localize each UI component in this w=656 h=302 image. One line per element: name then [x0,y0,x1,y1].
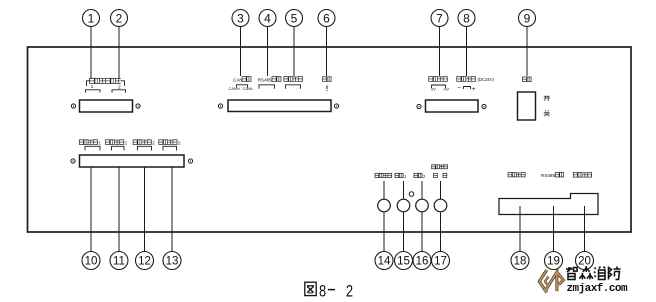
callout 10 [82,252,100,270]
svg-text:+: + [472,86,476,93]
caption CJK tu (figure) glyph [305,282,316,295]
pin bracket power input [464,87,471,90]
watermark text miao (CJK) [579,266,593,279]
svg-text:0V: 0V [431,87,436,92]
svg-text:13: 13 [166,256,179,268]
callout 12 [136,252,154,270]
callout 17 [432,252,450,270]
connector J2 body [228,100,331,112]
callout 6 [318,10,335,27]
pin bracket J1-2 [112,90,126,93]
svg-text:RS485: RS485 [541,173,555,178]
jack ext line 1 [397,199,410,212]
connector J1 body [80,100,133,112]
watermark text fang (CJK) [609,267,621,280]
label remote output (CJK) [429,77,433,82]
callout 8 [458,10,475,27]
label request port (CJK) [508,173,512,177]
wire plate to bottom callout [584,206,586,252]
label cascade output (CJK) [573,173,577,178]
wire J4 to bottom callout [144,167,146,252]
pin bracket J1-1 [86,90,101,93]
callout 13 [163,252,181,270]
callout 16 [413,252,431,270]
label power input (CJK) + (DC24V) [457,77,461,82]
svg-text:8: 8 [319,282,326,301]
callout 4 [259,10,276,27]
label chassis (CJK) [323,77,327,82]
label ext line 2 (CJK) [414,173,418,177]
label J1 fire-alarm-signal-input (CJK) [90,78,95,83]
wire jack to bottom callout [440,212,442,252]
svg-text:1: 1 [88,11,95,25]
svg-text:9: 9 [524,11,531,25]
chassis pin tick [326,85,328,89]
label bracket J1 (fire signal input) [87,81,91,86]
label electronic podium (CJK, 2 lines) [432,165,436,169]
wire callout 2 leader [118,27,120,80]
wire plate to bottom callout [519,206,521,252]
label fixed-voltage input 2 (CJK) [133,140,137,145]
screw right of J2 [334,104,338,108]
svg-text:5: 5 [291,11,298,25]
wire J4 to bottom callout [90,167,92,252]
indicator small circle [409,192,414,197]
wire label stub to jack [383,181,385,199]
wire jack to bottom callout [421,212,423,252]
svg-text:19: 19 [547,256,560,268]
pin bracket J4-2 [112,146,125,150]
svg-text:6: 6 [323,11,330,25]
wire callout 5 leader [293,27,295,77]
label fixed-voltage output 1 (CJK) [106,140,110,145]
screw right of J1 [136,104,140,108]
svg-text:CANL: CANL [243,86,254,91]
svg-text:4: 4 [264,11,271,25]
label control port (CJK) [284,77,288,82]
wire callout 6 leader [326,27,328,77]
jack audio output [378,199,391,212]
wire plate to bottom callout [553,206,555,252]
label fixed-voltage input 1 (CJK) [79,140,83,145]
svg-text:7: 7 [436,11,443,25]
wire callout 3 leader [240,27,242,77]
screw left of J4 [71,159,75,163]
label power (CJK) [523,77,527,82]
wire callout 1 leader [90,27,92,80]
pin bracket J4-4 [163,146,177,150]
callout 18 [511,252,529,270]
wire callout 8 leader [466,27,468,77]
pin bracket CAN [237,85,248,88]
wire label stub to jack [403,181,405,199]
callout 9 [519,10,536,27]
label ON (CJK kai) [544,96,550,101]
label ext line 1 (CJK) [395,173,399,177]
jack podium output [434,199,447,212]
svg-text:18: 18 [514,256,527,268]
watermark text zhi (CJK) [566,267,577,280]
wire jack to bottom callout [383,212,385,252]
jack ext line 2 [416,199,429,212]
svg-text:17: 17 [434,256,447,268]
power switch S1 body [518,92,536,120]
screw right of J3 [482,104,486,108]
pin bracket RS485 [259,85,275,89]
wire callout 7 leader [439,27,441,77]
callout 5 [286,10,303,27]
svg-text:8: 8 [463,11,470,25]
callout 19 [545,252,563,270]
callout 11 [110,252,128,270]
svg-text:14: 14 [378,256,391,268]
connector J3 body [426,100,479,112]
svg-text:1: 1 [91,84,94,90]
screw left of J3 [417,104,421,108]
wire callout 9 leader [526,27,528,77]
callout 1 [83,10,100,27]
connector plate body [499,194,598,215]
screw right of J4 [188,159,192,163]
connector J4 body [80,155,185,167]
label audio output (CJK) [375,173,379,177]
screw left of J2 [218,104,222,108]
callout 7 [431,10,448,27]
svg-text:2: 2 [346,282,353,301]
label fixed-voltage output 2 (CJK) [159,140,163,145]
callout 15 [395,252,413,270]
wire label stub to jack [421,181,423,199]
svg-text:CANH: CANH [228,86,239,91]
wire label stub to jack [440,181,442,199]
pin bracket remote output [432,85,446,88]
callout 3 [232,10,249,27]
svg-text:15: 15 [397,256,410,268]
pin bracket J4-1 [85,146,100,150]
svg-text:−: − [457,85,461,92]
screw left of J1 [71,104,75,108]
svg-text:12: 12 [138,256,151,268]
callout 2 [111,10,128,27]
callout 20 [576,252,594,270]
svg-text:2: 2 [116,11,123,25]
wire J4 to bottom callout [171,167,173,252]
svg-text:3: 3 [237,11,244,25]
svg-text:zmjaxf.com: zmjaxf.com [567,283,628,295]
callout 14 [375,252,393,270]
label OFF (CJK guan) [544,110,550,116]
wire jack to bottom callout [403,212,405,252]
svg-text:11: 11 [113,256,125,268]
watermark logo diamond N [539,270,563,293]
wire callout 4 leader [267,27,269,77]
svg-text:RS485: RS485 [258,77,272,82]
svg-text:CAN: CAN [233,77,243,82]
svg-text:20: 20 [578,256,591,268]
svg-text:(DC24V): (DC24V) [478,77,495,82]
wire J4 to bottom callout [118,167,120,252]
svg-text:10: 10 [85,256,98,268]
svg-text:-9V: -9V [443,87,450,92]
panel outline [28,47,632,232]
svg-text:16: 16 [416,256,429,268]
watermark text xiao (CJK) [594,267,605,280]
pin bracket J4-3 [138,146,152,150]
pin bracket control [286,85,301,89]
